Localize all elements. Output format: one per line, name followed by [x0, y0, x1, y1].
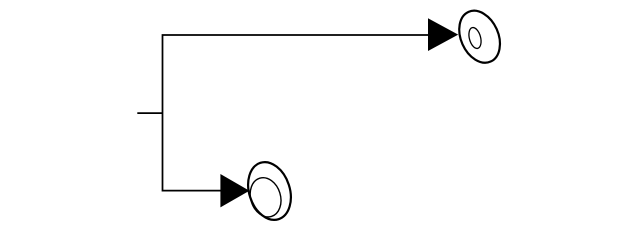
arrowhead to lower grommet [220, 174, 249, 207]
wire: bracket polyline (top leader, vertical stem, bottom leader) [163, 35, 431, 191]
upper grommet outer ellipse [451, 4, 507, 69]
arrowhead to upper grommet [428, 18, 458, 51]
upper grommet inner hole [467, 26, 483, 50]
lower grommet inner rim [246, 174, 286, 221]
lower grommet outer ellipse [241, 157, 298, 226]
wire: left tick [137, 112, 162, 114]
